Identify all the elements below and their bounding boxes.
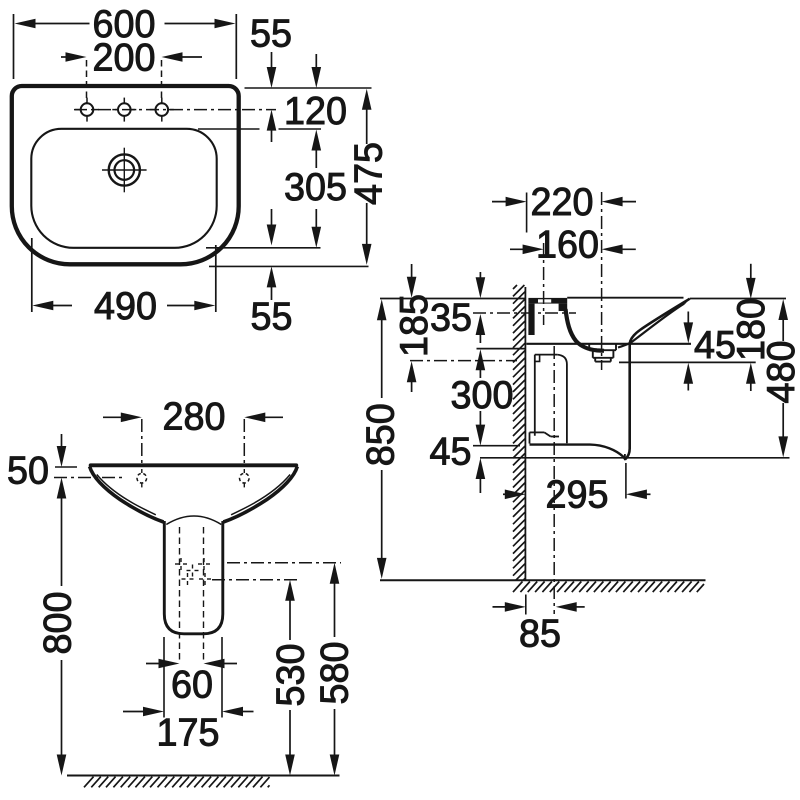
side view: rim / tap platform at wall — [528, 298, 567, 335]
reference line: basin bottom edge extended right — [209, 265, 369, 267]
dimension 480 (rim to skirt tip, vertical) — [760, 299, 800, 457]
svg-text:55: 55 — [251, 295, 293, 338]
reference line: basin top edge extended right — [245, 87, 372, 89]
pedestal fixing axis (dash-dot) upper — [227, 562, 341, 564]
dimension 50 (top edge to fixing holes) — [7, 434, 77, 499]
wall fixing hole axis (dash-dot) — [54, 477, 124, 479]
dimension 280 (fixing hole spacing) — [103, 395, 283, 467]
reference line: skirt tip level (long) — [480, 457, 790, 459]
tap hole axis (dash-dot centerline) — [74, 109, 276, 111]
side view: drain trap flange — [589, 345, 616, 362]
svg-text:300: 300 — [451, 374, 514, 417]
side view: front apron edge — [625, 344, 630, 460]
svg-text:475: 475 — [347, 142, 390, 205]
dimension 490 (inner bowl width) — [32, 238, 216, 328]
svg-text:85: 85 — [519, 612, 561, 655]
svg-text:220: 220 — [531, 181, 594, 224]
dimension 160 (tap axis to drain axis) — [510, 223, 636, 266]
dimension 85 (wall to pedestal axis) — [493, 595, 585, 656]
svg-text:45: 45 — [430, 430, 472, 473]
tap hole left — [75, 98, 99, 122]
dimension 55 (bottom edge thickness) — [251, 209, 293, 338]
side view: floor hatching — [513, 582, 704, 593]
side view: floor line — [380, 579, 706, 581]
dimension 45 (foot to skirt tip, left) — [430, 430, 486, 493]
side view: pedestal foot and skirt bottom — [530, 432, 626, 459]
svg-text:50: 50 — [7, 449, 49, 492]
front view: floor hatching — [84, 777, 270, 788]
svg-text:480: 480 — [760, 341, 800, 404]
dimension 850 (rim height, vertical) — [359, 299, 402, 579]
front view: basin underside line left — [97, 475, 156, 515]
svg-text:175: 175 — [157, 711, 220, 754]
reference line: inner bowl top extended right — [198, 128, 260, 130]
top view: inner bowl outline — [31, 129, 216, 248]
front view: pedestal top arc — [166, 516, 221, 525]
side view: wall hatching — [513, 285, 525, 580]
reference line: rim level extended right — [690, 298, 786, 300]
svg-text:305: 305 — [284, 166, 347, 209]
dimension 120 (top edge to bowl) — [284, 54, 347, 168]
side view: front outer profile — [630, 299, 690, 344]
svg-text:35: 35 — [430, 296, 472, 339]
side view: far rim edge line — [567, 297, 683, 299]
pedestal axis vertical (dash-dot) — [553, 346, 555, 614]
wall face extension line (220 dim) — [526, 193, 528, 233]
dimension 295 (wall to skirt front) — [503, 463, 651, 517]
dimension 220 (wall to drain axis) — [492, 181, 636, 224]
dimension 35 (rim to tap axis) — [430, 272, 485, 343]
side view: rim tip closure — [684, 299, 690, 304]
reference line: inner bowl bottom extended right — [206, 247, 321, 249]
dimension 475 (overall depth, vertical) — [347, 89, 390, 265]
front view: pedestal outline — [164, 521, 223, 634]
drain axis vertical (dash-dot) — [601, 192, 603, 370]
tap hole right — [150, 98, 174, 122]
side view: semi-pedestal outline — [535, 355, 567, 444]
svg-text:120: 120 — [284, 90, 347, 133]
pedestal hidden drain lines (dashed) — [179, 527, 181, 661]
svg-text:580: 580 — [313, 642, 356, 705]
svg-text:60: 60 — [171, 663, 213, 706]
dimension 305 (bowl depth) — [284, 166, 347, 248]
front view: basin top edge — [91, 463, 297, 467]
svg-text:800: 800 — [36, 592, 79, 655]
svg-text:200: 200 — [93, 36, 156, 79]
svg-text:530: 530 — [269, 644, 312, 707]
dimension 800 (fixing hole height, vertical) — [36, 495, 79, 776]
svg-text:280: 280 — [163, 395, 226, 438]
svg-text:55: 55 — [250, 12, 292, 55]
reference line: rim level extended left to 850 dim — [380, 298, 526, 300]
pedestal fixing cross markers — [175, 558, 211, 585]
front view: floor line — [67, 775, 340, 777]
reference line: bracket bottom extended left — [477, 348, 527, 350]
tap hole centre — [112, 98, 136, 122]
wall fixing hole right — [240, 469, 250, 487]
dimension 175 (pedestal width) — [123, 637, 254, 754]
reference line: bottom of front valance right — [619, 361, 756, 363]
svg-text:490: 490 — [94, 285, 157, 328]
dimension 580 (upper fixing height, vertical) — [313, 563, 356, 776]
pedestal fixing axis (dash-dot) lower — [212, 579, 299, 581]
tap axis horizontal (dash-dot) — [473, 312, 576, 314]
front view: basin left slope — [90, 467, 164, 523]
dimension 45 (underside to valance, right) — [684, 312, 737, 391]
wall fixing hole left — [137, 469, 147, 487]
svg-text:160: 160 — [536, 223, 599, 266]
top view: outer basin outline — [12, 86, 239, 264]
side view: apron bottom tick — [624, 454, 626, 460]
svg-text:295: 295 — [546, 474, 609, 517]
svg-text:185: 185 — [393, 294, 436, 357]
side view: wall face line — [524, 287, 526, 580]
dimension 60 (drain width) — [146, 659, 237, 707]
dimension 600 (overall width, top) — [14, 3, 237, 79]
outlet axis horizontal (dash-dot) — [410, 360, 517, 362]
dimension 530 (lower fixing height, vertical) — [269, 580, 312, 776]
front view: basin underside line right — [231, 475, 290, 515]
front view: basin right slope — [223, 467, 297, 523]
svg-text:850: 850 — [359, 403, 402, 466]
drain / overflow symbol — [102, 148, 147, 193]
side view: basin underside line — [526, 343, 691, 345]
reference line: pedestal foot bottom extended left — [473, 445, 520, 447]
dimension 185 (rim to outlet axis) — [393, 264, 436, 392]
dimension 300 (bracket to foot) — [451, 349, 514, 445]
dimension 200 (tap hole spacing) — [61, 36, 202, 104]
dimension 55 (top edge to tap axis) — [250, 12, 292, 142]
dimension 180 (rim to valance bottom) — [730, 264, 773, 391]
tap axis vertical (dash-dot) — [543, 243, 545, 325]
side view: bowl back curve — [566, 309, 605, 351]
side view: bowl front inner curve — [618, 304, 684, 348]
